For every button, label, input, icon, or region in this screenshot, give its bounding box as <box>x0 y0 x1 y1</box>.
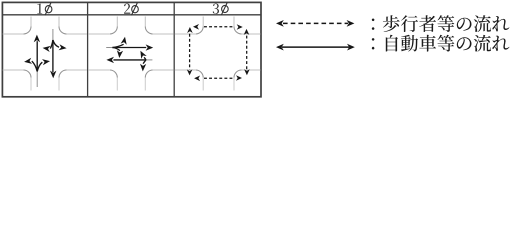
table outer border <box>2 2 261 96</box>
table column divider 1 <box>87 2 89 97</box>
cell3 pedestrian crossing bottom dashed arrow (horizontal) <box>204 77 234 79</box>
header label 1phi <box>37 3 52 16</box>
cell3 pedestrian crossing right dashed arrow (vertical) <box>246 36 248 70</box>
table column divider 2 <box>173 2 175 97</box>
table header separator line <box>2 14 261 16</box>
cell 3 road corner curves <box>196 27 242 78</box>
cell3 pedestrian crossing left dashed arrow (vertical) <box>189 34 191 70</box>
cell 1 road corner curves <box>24 27 67 78</box>
legend vehicle solid double arrow <box>282 46 349 48</box>
legend pedestrian dashed double arrow <box>283 22 348 24</box>
cell 2 road corner curves <box>110 27 153 78</box>
cell1 northbound vehicle arrow (up trident) <box>32 41 43 87</box>
cell2 eastbound vehicle arrow (right trident) <box>106 44 146 50</box>
cell3 pedestrian crossing top dashed arrow (horizontal) <box>204 26 235 28</box>
cell2 westbound vehicle arrow (left trident) <box>113 57 152 63</box>
legend text line 1 : pedestrian flow <box>372 15 510 32</box>
cell1 southbound vehicle arrow (down trident) <box>50 29 59 72</box>
header label 2phi <box>124 3 138 16</box>
legend text line 2 : vehicle flow <box>372 35 510 52</box>
header label 3phi <box>213 2 229 15</box>
